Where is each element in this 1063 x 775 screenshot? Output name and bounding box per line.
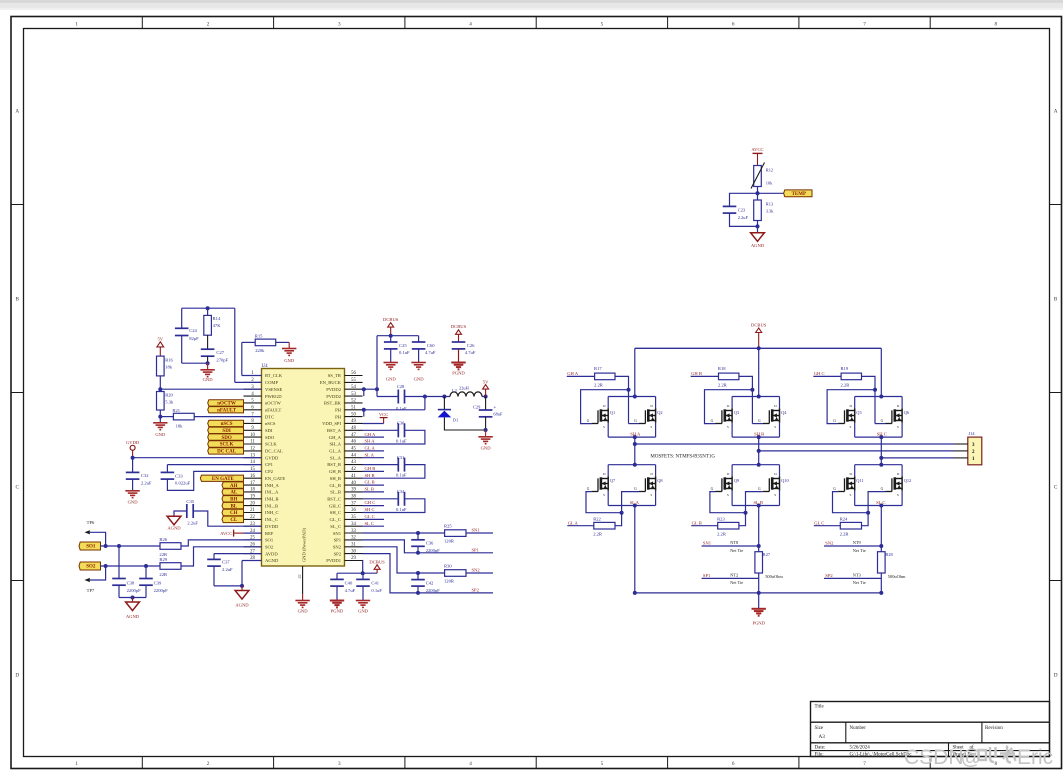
wire net SL_B bbox=[363, 491, 385, 493]
svg-text:SL B: SL B bbox=[365, 487, 374, 492]
svg-text:Q9: Q9 bbox=[734, 478, 740, 483]
svg-text:GH A: GH A bbox=[365, 432, 377, 437]
svg-text:SCLK: SCLK bbox=[265, 442, 277, 447]
svg-text:PH: PH bbox=[335, 407, 342, 412]
svg-text:SN1: SN1 bbox=[703, 541, 712, 546]
resistor R22 gate low bbox=[594, 522, 615, 529]
svg-text:Net Tie: Net Tie bbox=[853, 548, 866, 553]
svg-text:47: 47 bbox=[351, 433, 356, 438]
port SO1 bbox=[79, 542, 101, 550]
svg-text:PWRGD: PWRGD bbox=[265, 394, 282, 399]
svg-text:SN2: SN2 bbox=[472, 568, 481, 573]
svg-text:VDD_SPI: VDD_SPI bbox=[322, 421, 341, 426]
resistor R15 bbox=[241, 342, 243, 375]
svg-text:C31: C31 bbox=[397, 455, 405, 460]
capacitor C31 bootstrap bbox=[363, 464, 399, 466]
ground under C27 bbox=[207, 363, 209, 370]
power ground PGND bridge bbox=[758, 593, 760, 609]
analog ground under C37 bbox=[241, 586, 243, 591]
capacitor C37 bbox=[214, 553, 262, 555]
svg-text:EN_BUCK: EN_BUCK bbox=[320, 380, 342, 385]
svg-text:44: 44 bbox=[351, 453, 356, 458]
svg-text:4: 4 bbox=[469, 22, 472, 28]
svg-text:5: 5 bbox=[601, 761, 604, 767]
svg-text:3: 3 bbox=[338, 761, 341, 767]
wire gate feed upper phase 2 bbox=[739, 376, 753, 423]
wire buck node bbox=[425, 396, 450, 398]
svg-text:INL_C: INL_C bbox=[265, 517, 278, 522]
svg-text:30: 30 bbox=[351, 549, 356, 554]
svg-text:39: 39 bbox=[351, 488, 356, 493]
wire PVDD1 to DCBUS rail bbox=[362, 561, 364, 574]
wire TP6 bbox=[90, 532, 106, 546]
svg-text:2: 2 bbox=[207, 22, 210, 28]
svg-text:DCBUS: DCBUS bbox=[369, 560, 385, 565]
U4 left pins bbox=[244, 371, 286, 563]
svg-text:C25: C25 bbox=[399, 343, 407, 348]
svg-text:45: 45 bbox=[351, 447, 356, 452]
wire net GL_A bbox=[363, 450, 385, 452]
capacitor C35 bbox=[174, 511, 187, 516]
ground under C29 bbox=[478, 436, 492, 438]
svg-text:SL A: SL A bbox=[630, 500, 640, 505]
capacitor C40 bbox=[336, 573, 338, 579]
svg-text:SH B: SH B bbox=[365, 473, 375, 478]
wire R30 to SN2 label bbox=[466, 572, 493, 574]
svg-text:10k: 10k bbox=[766, 181, 773, 186]
svg-text:68uF: 68uF bbox=[493, 412, 503, 417]
svg-text:CP2: CP2 bbox=[265, 469, 274, 474]
svg-text:21: 21 bbox=[250, 508, 255, 513]
svg-text:Size: Size bbox=[815, 726, 824, 731]
svg-text:G: G bbox=[881, 487, 884, 491]
wire AGND pin 28 bbox=[242, 560, 262, 562]
svg-text:Number: Number bbox=[850, 726, 867, 731]
svg-text:20: 20 bbox=[250, 501, 255, 506]
svg-text:57: 57 bbox=[297, 574, 302, 578]
svg-text:R14: R14 bbox=[213, 316, 221, 321]
wire net GH_A bbox=[363, 436, 385, 438]
svg-text:38: 38 bbox=[351, 495, 356, 500]
capacitor C41 bbox=[362, 573, 364, 579]
capacitor C29 bbox=[485, 397, 487, 411]
capacitor C32 bbox=[132, 458, 134, 473]
svg-text:Net Tie: Net Tie bbox=[730, 548, 743, 553]
port nSCS bbox=[208, 420, 244, 426]
wire phase C source to shunt bbox=[880, 506, 882, 552]
svg-text:54: 54 bbox=[351, 385, 356, 390]
svg-text:SL_B: SL_B bbox=[330, 490, 341, 495]
analog ground thermistor bbox=[751, 233, 765, 242]
svg-text:2.2R: 2.2R bbox=[718, 382, 728, 387]
wire riser phase 3 lower bbox=[880, 458, 882, 465]
svg-text:4.7uF: 4.7uF bbox=[425, 350, 436, 355]
wire VDD_SPI pin 49 bbox=[363, 423, 384, 425]
svg-text:S: S bbox=[850, 493, 852, 497]
svg-text:0.1uF: 0.1uF bbox=[396, 438, 407, 443]
svg-text:SH B: SH B bbox=[754, 431, 764, 436]
wire gate feed upper phase 1 bbox=[615, 376, 629, 423]
svg-text:220k: 220k bbox=[255, 348, 265, 353]
svg-text:2200pF: 2200pF bbox=[154, 588, 168, 593]
resistor R20 bbox=[157, 392, 165, 411]
svg-text:GND: GND bbox=[284, 358, 295, 363]
svg-text:GND: GND bbox=[358, 609, 369, 614]
svg-text:R23: R23 bbox=[717, 516, 725, 521]
svg-text:B: B bbox=[1054, 296, 1058, 302]
wire SP1 net bbox=[363, 540, 494, 553]
svg-text:EN GATE: EN GATE bbox=[212, 477, 235, 482]
svg-text:0.1uF: 0.1uF bbox=[399, 350, 410, 355]
svg-text:C23: C23 bbox=[738, 207, 746, 212]
svg-text:R22: R22 bbox=[593, 516, 601, 521]
svg-text:nFAULT: nFAULT bbox=[217, 408, 237, 413]
transistor Q4 bbox=[779, 408, 781, 422]
svg-text:SP2: SP2 bbox=[472, 588, 480, 593]
svg-text:B: B bbox=[15, 296, 19, 302]
wire gate feed upper phase 3 bbox=[862, 376, 876, 423]
svg-text:R29: R29 bbox=[159, 557, 167, 562]
thermistor R12 bbox=[754, 166, 762, 187]
svg-text:GND (PowerPAD): GND (PowerPAD) bbox=[302, 528, 307, 562]
svg-text:11: 11 bbox=[250, 440, 255, 445]
svg-text:Net Tie: Net Tie bbox=[730, 580, 743, 585]
svg-text:INH_A: INH_A bbox=[265, 483, 279, 488]
net SN2 wire bbox=[824, 545, 881, 547]
svg-text:G: G bbox=[634, 419, 637, 423]
transistor Q6 bbox=[901, 408, 903, 422]
svg-text:40: 40 bbox=[351, 481, 356, 486]
svg-text:SS_TR: SS_TR bbox=[328, 373, 342, 378]
svg-text:AVDD: AVDD bbox=[265, 551, 278, 556]
svg-text:R25: R25 bbox=[444, 524, 452, 529]
svg-text:R19: R19 bbox=[841, 366, 849, 371]
wire net SL_A bbox=[363, 457, 385, 459]
row dividers bbox=[11, 204, 24, 206]
svg-text:DCBUS: DCBUS bbox=[383, 317, 399, 322]
svg-text:5: 5 bbox=[601, 22, 604, 28]
svg-text:52: 52 bbox=[351, 399, 356, 404]
svg-text:BST_B: BST_B bbox=[327, 462, 341, 467]
connector J14 bbox=[968, 437, 982, 465]
svg-text:S: S bbox=[897, 425, 899, 429]
svg-text:Eric: Eric bbox=[1017, 746, 1053, 769]
wire net SL_C bbox=[363, 525, 385, 527]
port SCLK bbox=[208, 441, 244, 447]
svg-text:C32: C32 bbox=[141, 473, 149, 478]
svg-text:S: S bbox=[650, 493, 652, 497]
svg-text:0.1uF: 0.1uF bbox=[396, 473, 407, 478]
svg-text:31: 31 bbox=[351, 543, 356, 548]
svg-text:SH_B: SH_B bbox=[330, 476, 341, 481]
svg-text:R15: R15 bbox=[255, 333, 263, 338]
svg-text:R27: R27 bbox=[763, 552, 771, 557]
svg-text:R21: R21 bbox=[172, 408, 180, 413]
transistor Q5 bbox=[854, 408, 856, 422]
capacitor C34 bootstrap bbox=[363, 498, 399, 500]
svg-text:DVDD: DVDD bbox=[265, 524, 279, 529]
resistor R23 gate low bbox=[718, 522, 739, 529]
wire SH stem phase 1 bbox=[634, 437, 636, 444]
svg-text:SH_C: SH_C bbox=[330, 510, 341, 515]
resistor R18 gate high bbox=[691, 375, 719, 377]
svg-text:C40: C40 bbox=[345, 580, 353, 585]
svg-text:6: 6 bbox=[732, 761, 735, 767]
svg-text:GL C: GL C bbox=[814, 520, 824, 525]
svg-text:GND: GND bbox=[386, 376, 397, 381]
svg-text:S: S bbox=[850, 425, 852, 429]
ground under pin 57 bbox=[302, 594, 304, 601]
svg-text:PVDD2: PVDD2 bbox=[326, 387, 342, 392]
wire divider to VSENSE pin 3 bbox=[159, 376, 161, 392]
svg-text:BL: BL bbox=[230, 504, 237, 509]
svg-text:nSCS: nSCS bbox=[265, 421, 276, 426]
capacitor C23 bbox=[730, 193, 758, 206]
wire net GL_B bbox=[363, 484, 385, 486]
capacitor C39 bbox=[145, 566, 147, 579]
resistor R28 shunt bbox=[878, 552, 886, 573]
svg-text:R16: R16 bbox=[165, 358, 173, 363]
wire R26 to pin 25 bbox=[181, 540, 262, 546]
wire thermistor node bbox=[757, 187, 759, 201]
svg-text:VSENSE: VSENSE bbox=[265, 387, 283, 392]
svg-text:2.2R: 2.2R bbox=[717, 532, 727, 537]
svg-text:Q2: Q2 bbox=[657, 410, 662, 415]
watermark CSDN bbox=[904, 746, 1053, 769]
svg-text:SCLK: SCLK bbox=[220, 443, 234, 448]
resistor R26 bbox=[160, 543, 181, 550]
wire riser phase 1 lower bbox=[634, 444, 636, 465]
capacitor C24 bbox=[181, 308, 183, 328]
svg-text:GL_A: GL_A bbox=[329, 449, 341, 454]
svg-text:DCBUS: DCBUS bbox=[751, 322, 767, 327]
svg-text:G: G bbox=[758, 419, 761, 423]
svg-text:R20: R20 bbox=[165, 393, 173, 398]
svg-text:32: 32 bbox=[351, 536, 356, 541]
svg-text:500uOhm: 500uOhm bbox=[765, 574, 783, 579]
svg-text:AVCC: AVCC bbox=[751, 147, 763, 152]
wire gate feed lower phase 3 bbox=[833, 492, 869, 513]
port AL bbox=[222, 489, 244, 495]
svg-text:Revision: Revision bbox=[985, 726, 1003, 731]
svg-text:S: S bbox=[603, 425, 605, 429]
op-amp U4 DRV8303 body bbox=[262, 369, 345, 567]
svg-text:AL: AL bbox=[230, 491, 238, 496]
top toolbar strip bbox=[0, 0, 1063, 10]
svg-text:2.2R: 2.2R bbox=[840, 532, 850, 537]
transistor Q9 bbox=[731, 476, 733, 490]
wire R13 bottom bbox=[757, 221, 759, 233]
port DC CAL bbox=[208, 448, 244, 454]
analog ground under C38 C39 bbox=[132, 598, 134, 603]
svg-text:R17: R17 bbox=[594, 366, 602, 371]
svg-text:2.2R: 2.2R bbox=[841, 382, 851, 387]
svg-text:SN1: SN1 bbox=[472, 528, 481, 533]
svg-text:G: G bbox=[711, 419, 714, 423]
svg-text:0.022uF: 0.022uF bbox=[175, 481, 191, 486]
svg-text:GL B: GL B bbox=[692, 520, 702, 525]
svg-text:SDI: SDI bbox=[222, 429, 230, 434]
svg-text:nSCS: nSCS bbox=[221, 422, 233, 427]
wire DCBUS rail bbox=[377, 335, 419, 337]
svg-text:7: 7 bbox=[863, 761, 866, 767]
svg-text:TEMP: TEMP bbox=[792, 192, 806, 197]
column dividers bbox=[141, 17, 143, 29]
svg-text:51: 51 bbox=[351, 405, 356, 410]
svg-text:CP1: CP1 bbox=[265, 462, 274, 467]
svg-text:270pF: 270pF bbox=[216, 357, 228, 362]
svg-text:SN2: SN2 bbox=[825, 541, 834, 546]
resistor R29 bbox=[160, 563, 181, 570]
wire SH stem phase 3 bbox=[880, 437, 882, 458]
svg-text:120R: 120R bbox=[444, 579, 455, 584]
wire comp bottom rail bbox=[182, 362, 208, 364]
wire net GH_C bbox=[363, 505, 385, 507]
ground under C60 bbox=[411, 362, 425, 364]
ground under R15 bbox=[288, 342, 290, 348]
svg-text:INL_B: INL_B bbox=[265, 503, 278, 508]
svg-text:SP1: SP1 bbox=[703, 573, 711, 578]
U4 right pins bbox=[320, 371, 363, 563]
svg-text:5V: 5V bbox=[483, 379, 489, 384]
port EN GATE bbox=[200, 475, 243, 481]
svg-text:8: 8 bbox=[995, 22, 998, 28]
svg-text:D: D bbox=[1054, 672, 1058, 678]
svg-text:NT9: NT9 bbox=[853, 540, 862, 545]
wire phase B source to shunt bbox=[758, 506, 760, 552]
svg-text:G: G bbox=[833, 419, 836, 423]
svg-text:G: G bbox=[881, 419, 884, 423]
resistor R27 shunt bbox=[755, 552, 763, 573]
svg-text:GL_B: GL_B bbox=[330, 483, 341, 488]
svg-text:S: S bbox=[727, 425, 729, 429]
svg-text:S: S bbox=[727, 493, 729, 497]
svg-text:Q8: Q8 bbox=[657, 478, 663, 483]
svg-text:4: 4 bbox=[469, 761, 472, 767]
svg-text:SL C: SL C bbox=[876, 500, 885, 505]
svg-text:SP1: SP1 bbox=[472, 547, 480, 552]
svg-text:GND: GND bbox=[155, 432, 166, 437]
svg-text:2.2uF: 2.2uF bbox=[222, 567, 233, 572]
svg-text:GH C: GH C bbox=[365, 500, 376, 505]
svg-text:CL: CL bbox=[230, 518, 238, 523]
power ground under C26 bbox=[451, 362, 465, 364]
port AH bbox=[222, 482, 244, 488]
capacitor C33 charge pump bbox=[167, 464, 261, 466]
svg-text:120R: 120R bbox=[444, 539, 455, 544]
svg-text:DC CAL: DC CAL bbox=[217, 450, 237, 455]
svg-text:GH A: GH A bbox=[567, 371, 579, 376]
svg-text:SP1: SP1 bbox=[334, 538, 342, 543]
transistor Q1 bbox=[607, 408, 609, 422]
svg-text:NT8: NT8 bbox=[730, 540, 739, 545]
svg-text:A: A bbox=[1054, 108, 1058, 114]
diode D1 bbox=[443, 397, 445, 410]
svg-text:GND: GND bbox=[414, 376, 425, 381]
wire net GH_B bbox=[363, 470, 385, 472]
svg-text:43: 43 bbox=[351, 460, 356, 465]
transistor Q12 bbox=[901, 476, 903, 490]
svg-text:1: 1 bbox=[75, 22, 78, 28]
net SP2 wire bbox=[824, 577, 881, 579]
analog ground under C35 bbox=[167, 516, 181, 525]
svg-text:PVDD1: PVDD1 bbox=[326, 558, 342, 563]
svg-text:C37: C37 bbox=[222, 559, 230, 564]
svg-text:SH A: SH A bbox=[630, 431, 641, 436]
svg-text:A3: A3 bbox=[819, 734, 826, 740]
capacitor C26 bbox=[452, 341, 466, 343]
svg-text:6: 6 bbox=[732, 22, 735, 28]
svg-text:AGND: AGND bbox=[235, 603, 249, 608]
svg-text:22uH: 22uH bbox=[459, 385, 470, 390]
svg-text:22R: 22R bbox=[159, 572, 168, 577]
wire riser phase 3 upper bbox=[880, 348, 882, 396]
svg-text:36: 36 bbox=[351, 508, 356, 513]
capacitor C42 bbox=[417, 573, 419, 580]
svg-text:GH_A: GH_A bbox=[329, 435, 342, 440]
svg-text:G: G bbox=[711, 487, 714, 491]
svg-text:SL C: SL C bbox=[365, 521, 374, 526]
svg-text:46: 46 bbox=[351, 440, 356, 445]
port SDI bbox=[208, 427, 244, 433]
svg-text:Q1: Q1 bbox=[610, 410, 615, 415]
svg-text:47K: 47K bbox=[213, 323, 222, 328]
svg-text:U4: U4 bbox=[262, 364, 269, 369]
svg-text:19: 19 bbox=[250, 495, 255, 500]
svg-text:GND: GND bbox=[128, 499, 139, 504]
svg-text:nFAULT: nFAULT bbox=[265, 407, 282, 412]
svg-text:56: 56 bbox=[351, 371, 356, 376]
svg-text:NT2: NT2 bbox=[730, 573, 738, 578]
wire R27 to PGND bus bbox=[758, 573, 760, 593]
net SN1 wire bbox=[702, 545, 759, 547]
svg-text:35: 35 bbox=[351, 515, 356, 520]
port BH bbox=[222, 496, 244, 502]
svg-text:AVCC: AVCC bbox=[220, 531, 232, 536]
wire SH_C bus to J14 bbox=[881, 457, 954, 459]
wire DCBUS top bus bbox=[635, 347, 882, 349]
title block lines bbox=[811, 721, 1050, 723]
svg-text:SDI: SDI bbox=[265, 428, 273, 433]
resistor R14 bbox=[207, 308, 209, 315]
svg-text:AGND: AGND bbox=[265, 558, 279, 563]
wire gate feed lower phase 2 bbox=[710, 492, 746, 513]
svg-text:2.2R: 2.2R bbox=[594, 382, 604, 387]
svg-text:DC_CAL: DC_CAL bbox=[265, 449, 283, 454]
wire SP2 net bbox=[363, 554, 494, 593]
svg-text:INL_A: INL_A bbox=[265, 490, 279, 495]
svg-text:12: 12 bbox=[250, 447, 255, 452]
svg-text:DCBUS: DCBUS bbox=[451, 324, 467, 329]
svg-text:PGND: PGND bbox=[452, 370, 465, 375]
svg-text:17: 17 bbox=[250, 481, 255, 486]
svg-text:GL C: GL C bbox=[365, 514, 375, 519]
svg-text:Q6: Q6 bbox=[904, 410, 910, 415]
svg-text:C: C bbox=[15, 484, 19, 490]
ground under C25 bbox=[384, 362, 398, 364]
wire lower pair box phase 2 bbox=[732, 464, 779, 466]
svg-text:Q12: Q12 bbox=[904, 478, 912, 483]
svg-text:G: G bbox=[587, 419, 590, 423]
resistor R13 bbox=[754, 200, 762, 221]
svg-text:55: 55 bbox=[351, 378, 356, 383]
svg-text:C24: C24 bbox=[189, 328, 197, 333]
resistor R17 gate high bbox=[567, 375, 595, 377]
svg-text:RT_CLK: RT_CLK bbox=[265, 373, 283, 378]
ground under C41 bbox=[356, 600, 370, 602]
svg-text:R18: R18 bbox=[718, 366, 726, 371]
wire BST_BK PH junction bbox=[363, 409, 425, 411]
